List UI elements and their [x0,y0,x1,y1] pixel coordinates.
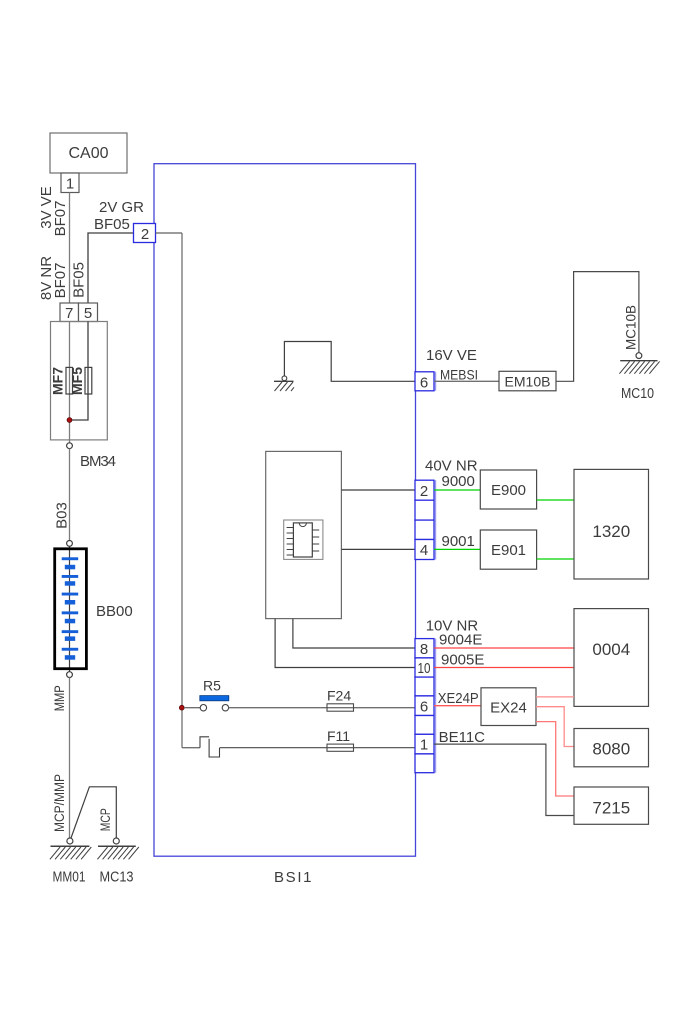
relay R5 [184,678,229,711]
wire BF05 from BSI pin2 to pin 5 [88,233,134,303]
svg-text:CA00: CA00 [68,145,108,162]
wire pin1 to 7215 [434,744,574,815]
svg-text:7: 7 [65,305,73,322]
svg-text:8: 8 [420,641,428,658]
svg-text:1320: 1320 [592,522,630,541]
label MCP/MMP [51,774,67,832]
wire vertical feed inside BSI [181,233,183,748]
wire pin6 to EX24 [434,705,481,707]
svg-text:BB00: BB00 [96,603,133,620]
svg-text:2: 2 [141,226,149,243]
internal module box [266,451,342,618]
svg-text:B03: B03 [54,502,71,529]
connector EX24 [481,688,536,726]
label MF7 [50,367,66,395]
svg-text:9004E: 9004E [439,632,482,649]
svg-text:MM01: MM01 [53,869,86,886]
label MCP [97,808,113,831]
svg-text:9001: 9001 [442,533,475,550]
svg-text:BSI1: BSI1 [274,869,313,886]
svg-text:BE11C: BE11C [439,729,486,746]
wire module to pin 8 [293,619,415,648]
svg-text:BM34: BM34 [80,453,116,470]
svg-text:EX24: EX24 [490,700,527,717]
ground MC10 [619,353,659,374]
fuse F24 [327,688,354,712]
label 8V NR [38,256,55,300]
wire EM10B to MC10 ground [556,272,639,382]
label BF05 vertical [71,262,88,298]
wire pin6 to EM10B [434,380,499,382]
label MMP [51,685,67,711]
wire BF07 from CA00 pin1 to pin 7 [69,193,71,304]
junction dot R5 feed [179,705,184,710]
junction dot MF7/MF5 [67,418,72,423]
svg-text:6: 6 [420,374,428,391]
svg-text:F24: F24 [327,688,351,704]
svg-text:XE24P: XE24P [438,690,479,707]
fuse holder box BM34 [51,322,108,440]
pin 2 (BF05 input) [134,224,156,244]
svg-text:4: 4 [420,542,428,559]
internal ground symbol [274,376,294,391]
svg-text:BF07: BF07 [52,263,69,299]
label MF5 [69,367,85,395]
connector circle battery top [67,541,73,547]
svg-text:BF07: BF07 [52,201,69,237]
internal ground wire [284,342,415,382]
wire MF5 branch [71,322,88,421]
connector circle BM34 [67,443,73,449]
svg-text:2V GR: 2V GR [99,199,144,216]
svg-text:40V NR: 40V NR [425,458,478,475]
connector E900 [480,470,536,509]
svg-text:R5: R5 [203,678,221,694]
svg-text:MEBSI: MEBSI [440,367,478,383]
svg-text:1: 1 [66,176,74,193]
pin 1 (CA00) [61,173,79,193]
wire EX24 to 8080 [536,707,574,747]
svg-text:16V VE: 16V VE [426,347,477,364]
svg-text:7215: 7215 [592,799,630,818]
wire EX24 to 7215 [536,722,574,796]
wire EX24 to 0004 [536,696,574,698]
battery BB00 [55,546,87,672]
line-break symbol F11 branch [182,737,220,757]
wire pin2 to E900 [434,489,480,491]
pin 7 [60,303,79,322]
svg-text:MF7: MF7 [50,367,66,395]
unit 0004 [574,609,649,707]
wire R5 to pin 6 through F24 [229,707,415,709]
ground MC13 [97,838,138,859]
wire module to pin 4 [341,548,415,550]
connector EM10B [499,371,556,391]
wire pin10 to 0004 [434,667,574,669]
label MC10B [623,305,639,350]
svg-text:BF05: BF05 [94,216,130,233]
svg-text:MCP: MCP [97,808,113,831]
connector circle battery bottom [67,672,73,678]
svg-text:MCP/MMP: MCP/MMP [51,774,67,832]
svg-text:10: 10 [418,660,431,677]
svg-text:MC13: MC13 [100,869,134,886]
label 3V VE [38,186,55,229]
svg-text:E901: E901 [491,542,526,559]
wire from pin2 into BSI [156,232,183,234]
svg-text:MC10B: MC10B [623,305,639,350]
svg-text:F11: F11 [327,728,350,744]
wire MMP to ground [69,678,71,838]
svg-text:MC10: MC10 [621,385,654,402]
wire to pin 1 through F11 [220,747,416,749]
pin 6 MEBSI [415,372,435,392]
wire E901 to 1320 [537,558,574,560]
unit 8080 [574,729,649,767]
wire pin8 to 0004 [434,647,574,649]
ground MM01 [50,838,91,859]
svg-text:5: 5 [84,305,92,322]
svg-text:MF5: MF5 [69,367,85,395]
pin column 8/10/6/1 [415,639,435,773]
svg-text:9000: 9000 [442,473,475,490]
connector E901 [480,530,536,569]
IC chip symbol [284,520,323,559]
BSI unit box [154,164,416,857]
fuse MF5 [85,367,92,394]
fuse MF7 [66,367,73,394]
connector CA00 [50,133,127,173]
pin column 2/4 [415,480,435,559]
svg-text:8080: 8080 [592,740,630,759]
svg-text:E900: E900 [491,482,526,499]
wire pin4 to E901 [434,548,480,550]
wire MCP branch [71,787,116,838]
wire through MF7 down to BM34 connector [69,322,71,443]
svg-text:0004: 0004 [592,640,630,659]
svg-text:BF05: BF05 [71,262,88,298]
label B03 [54,502,71,529]
wire module to pin 10 [275,619,415,668]
svg-text:1: 1 [420,737,428,754]
svg-text:2: 2 [420,483,428,500]
label BF07 [52,201,69,237]
svg-text:9005E: 9005E [441,652,484,669]
unit 1320 [574,469,649,579]
svg-text:MMP: MMP [51,685,67,711]
unit 7215 [574,787,649,824]
pin 5 [79,303,98,322]
wire E900 to 1320 [537,499,574,501]
fuse F11 [327,728,354,751]
svg-text:6: 6 [420,698,428,715]
wire B03 [69,449,71,541]
label BF07 lower [52,263,69,299]
svg-text:EM10B: EM10B [505,373,551,389]
wire module to pin 2 [341,489,415,491]
